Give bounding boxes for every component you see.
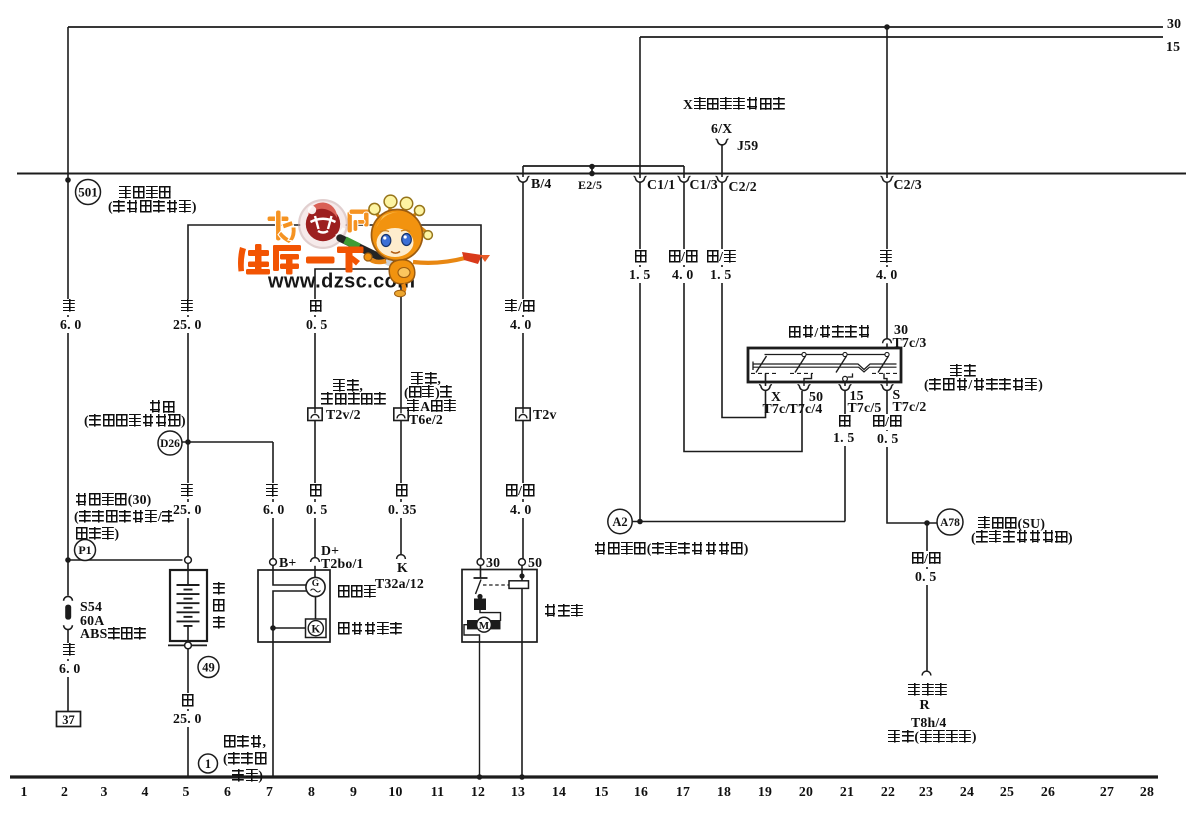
label red 6.0 generator [265,483,280,499]
label T2v [533,407,557,423]
watermark magnifier lens [298,199,348,249]
fuse S54 top holder arc [64,596,73,600]
wire blue 0.35 below plug T6e/2 [400,421,402,555]
label positive connection 30 line3 [75,526,119,542]
label radio plug [888,729,977,745]
label 0.5 swS [876,431,900,447]
label positive in generator harness line2 [84,413,186,429]
label positive connection 30 line1 [75,492,151,508]
connector circle P1 [75,540,96,561]
label 30 T7c3 b [893,335,927,351]
label plug near battery line2 [321,392,387,408]
connector cup X T7c/1 [759,385,772,391]
connector circle 501 (screw connection on relay plate) [76,180,101,205]
svg-text:G: G [312,579,320,589]
switch blade 15 [836,356,847,373]
wire black 1.5 from bus15 corner down through C1/1 [639,37,641,178]
label blue lower [308,483,323,499]
switch actuator bar upper [753,364,897,370]
label X T7c1 b [763,401,797,417]
label B+ [279,555,296,571]
label T6e/2 [409,412,443,428]
label S54 [80,599,102,615]
label E2/5 [578,178,602,193]
wire blue/black 0.5 from S down [887,391,937,524]
starter solenoid coil box [509,581,529,589]
label ABS fuse [80,626,147,642]
label 25.0 ground [172,711,203,727]
wire black/blue 4.0 down to starter 50 [522,421,524,559]
wire P1 to battery positive [68,559,183,561]
label black/red c22 [705,249,737,265]
wire bus 30 (terminal 30 supply) [68,26,1163,28]
svg-text:K: K [311,623,320,635]
label 1.5 sw15 [832,430,856,446]
svg-text:A78: A78 [940,517,960,529]
switch contact circle 15 lower [843,376,848,381]
label red 25.0 lower [180,483,195,499]
node junction dot A78 [924,520,930,526]
connector circle 1 (ground strap on battery) [199,754,218,773]
label black 25.0 [180,693,195,709]
wire red 4.0 C2/3 down to switch 30 [886,182,888,338]
switch actuator bar lower [753,367,897,372]
label 4.0 c23 [875,267,899,283]
svg-text:P1: P1 [78,543,91,557]
node junction dot starter solenoid contact [477,594,482,599]
starter contact bar [474,577,488,579]
switch contact circle t15 [843,352,847,356]
terminal circle battery negative [185,642,192,649]
label 50 T7c4 a [809,389,823,405]
label S T7c2 a [893,387,901,403]
wire solenoid to ground rail [521,588,523,777]
starter solenoid link dashed [483,584,509,586]
label X contact relay [683,97,785,113]
wire blue 0.5 D+ riser [315,269,401,408]
switch blade S [878,356,889,373]
wire battery positive loop top [188,225,481,559]
switch contact circle t50 [802,352,806,356]
wire A2 horizontal to ignition switch 15 [632,521,845,523]
terminal circle 30 on starter [477,559,484,566]
starter motor M circle [477,617,492,632]
label 4.0 bb [509,502,533,518]
watermark text zhao (find) [267,210,296,244]
wire D26 branch horizontal [182,441,273,443]
label B/4 [531,176,552,192]
connector C1/3 cup [678,177,691,183]
node dot E2/5 lower [589,171,595,177]
label black/blue c13 [667,249,699,265]
label red [62,299,77,315]
label ground strap line2 [223,751,267,767]
node E2/5 tie bar [591,166,593,174]
node junction dot A2 [637,519,643,525]
generator symbol G circle [306,577,325,596]
svg-text:M: M [479,620,490,632]
node dot E2/5 upper [589,164,595,170]
battery plates symbol [177,584,200,586]
watermark text wei [238,244,270,275]
switch contact circle tS [885,352,889,356]
label R radio [920,698,930,714]
label J59 [737,138,758,154]
battery G1 box [170,570,207,641]
label 15 bus [1166,39,1180,55]
connector plug radio R T8h/4 arc [922,671,931,675]
label blue/black radio [910,551,942,567]
wire segment B/4 to C1/3 above main line [523,165,684,167]
label radio name [908,683,948,699]
label A78 line1 [978,516,1045,532]
starter motor brush left [467,620,477,629]
node junction dot generator ground [270,625,276,631]
node junction dot P1 [65,557,71,563]
label D+ [321,543,339,559]
svg-text:1: 1 [205,757,211,771]
starter B box [462,570,537,643]
label C1/3 [690,177,718,193]
label 501 screw connection line2 [108,199,197,215]
label positive connection 30 line2 [74,509,175,525]
label plug brown line3 [407,399,457,415]
label A78 line2 [971,530,1073,546]
node junction dot on bus 30 [884,24,890,30]
wire starter 30 internal [480,566,482,579]
label 30 starter [486,555,500,571]
label blue/black swS [871,414,903,430]
label generator name [337,584,377,600]
connector C2/2 cup [716,177,729,183]
svg-text:A2: A2 [612,515,627,529]
inline plug T2v/2 [308,408,322,421]
label K terminal [397,560,408,576]
wire battery ground black 25.0 [187,649,189,777]
label ground strap line1 [223,734,266,750]
node junction dot starter 50 [519,573,524,578]
starter main contact block [474,599,486,611]
label C1/1 [647,177,675,193]
ground rail bottom [10,775,1158,778]
label voltage regulator name [337,621,403,637]
switch stub 50 [804,373,812,386]
wire black 1.5 riser to switch terminal 15 [844,391,846,522]
wire B/4 drop to connector [522,166,524,177]
label black/blue [504,483,536,499]
label 0.5 upper [305,317,329,333]
label T32a/12 [375,576,424,592]
connector cup 50 T7c/4 [798,385,811,391]
watermark mascot head [372,210,423,261]
connector circle 49 [198,657,219,678]
svg-text:37: 37 [62,713,75,727]
label 1.5 c11 [628,267,652,283]
node junction dot on main line at 501 [65,177,71,183]
watermark dzsc logo group [238,195,490,297]
label 0.5 lower [305,502,329,518]
wire contact block to motor brush [480,610,501,621]
switch stub 15 [844,381,846,386]
inline plug T2v [516,408,530,421]
watermark magnifier handle [340,238,406,270]
label 15 T7c5 a [850,388,864,404]
terminal circle 50 on starter [519,559,526,566]
connector B/4 cup [517,177,530,183]
wire black/red 1.5 C2/2 down to switch X [722,182,766,417]
label C2/2 [729,179,757,195]
label 25.0 upper [172,317,203,333]
label 4.0 c13 [671,267,695,283]
node junction dot solenoid ground at rail [519,774,525,780]
switch internal top rail [765,354,888,356]
generator C1 box [258,570,330,642]
connector C2/3 cup [881,177,894,183]
connector plug T2bo/1 (D+) arc [311,558,320,562]
label 6.0 [59,317,83,333]
label 4.0 rb [509,317,533,333]
wire black/blue 4.0 C1/3 down [684,182,802,451]
switch stub S [884,373,887,386]
terminal circle B+ on generator [270,559,277,566]
wire red 4.0 from bus30 down through C2/3 [886,27,888,178]
watermark mascot antennae [369,195,433,239]
wire bus 15 (terminal 15 supply) [640,36,1163,38]
label red 25.0 upper [180,299,195,315]
label plug brown line1 [411,371,441,387]
watermark text xia [337,247,364,273]
terminal box 37 [57,712,81,727]
connector plug K T32a/12 arc [397,555,406,559]
label T2v/2 [326,407,361,423]
wire red/black 4.0 B/4 down to plug T2v [522,182,524,408]
fuse S54 60A ABS fuse body [65,605,71,620]
label blue upper [308,299,323,315]
fuse S54 bottom holder arc [64,625,73,629]
connector plug 30 T7c/3 arc [883,339,892,343]
battery negative bar [168,644,207,646]
label plug on ignition line2 [924,377,1043,393]
voltage regulator K symbol [306,619,327,638]
switch blade X [756,356,767,373]
starter switch blade [476,580,482,595]
wire generator internal G to ground [273,591,307,777]
label 25.0 lower [172,502,203,518]
svg-text:49: 49 [202,660,215,674]
watermark text yi [306,257,335,264]
svg-text:501: 501 [78,184,98,199]
wire junction to voltage regulator K [273,627,305,629]
label S T7c2 b [893,399,927,415]
wire battery internal bottom [187,626,189,642]
label 6/X [711,121,732,137]
switch detent dashes [751,372,776,374]
node junction dot on battery wire at D26 branch [185,439,191,445]
wire blue/black 0.5 radio drop [926,523,928,671]
label 0.5 radio [914,569,938,585]
watermark mascot body [364,252,490,297]
wire track2 red 6.0 from bus30 down to fuse S54 [67,27,69,596]
wire battery internal top [187,564,189,586]
label ground strap line3 [232,768,263,784]
wire generator internal B+ to G [273,566,307,586]
wire D+ drop into generator [314,566,316,578]
label 50 T7c4 b [789,401,823,417]
connector circle A2 (positive connection in dash panel harness) [608,509,632,533]
watermark text pian [347,209,371,233]
label blue 0.35 [394,483,409,499]
connector cup S T7c/2 [881,385,894,391]
inline plug T6e/2 [394,408,408,421]
wire plug into switch box [886,343,888,348]
svg-text:D26: D26 [160,438,180,450]
label plug brown line2 [404,385,453,401]
switch hook 15 [848,373,853,377]
label 30 T7c3 a [894,322,908,338]
label positive in generator harness line1 [149,400,175,416]
label plug near battery line1 [333,378,363,394]
wire motor to ground [464,625,480,777]
label 0.35 [387,502,418,518]
wire red 6.0 down to generator B+ [272,442,274,559]
label battery vertical [213,580,226,631]
label 6.0 below fuse [58,661,82,677]
wire starter 50 internal [521,566,523,581]
label 60A [80,613,104,629]
wire blue 0.5 below plug T2v/2 [314,421,316,558]
label 1.5 c22 [709,267,733,283]
label plug on ignition line1 [950,364,976,380]
connector plug 6/X J59 cup (X contact relief relay) [716,139,729,145]
wire black 1.5 C1/1 down to junction A2 [639,182,641,522]
track number row 1-28 [0,784,1200,800]
ignition switch D box [748,348,901,382]
label starter name [544,604,584,620]
wire from relay J59 down to main line [721,145,723,177]
label 30 bus [1167,16,1181,32]
label 6.0 generator [262,502,286,518]
wire main interior bus line [17,173,1186,175]
label 50 starter [528,555,542,571]
label red below fuse [62,643,77,659]
wire G to regulator K [315,597,317,619]
connector circle A78 (connection SU in dash harness) [937,509,963,535]
wire C1/3 drop from segment [683,166,685,178]
label 501 screw connection line1 [119,185,172,201]
label red/black [504,299,536,315]
label black sw15 [837,414,852,430]
label T8h/4 [911,715,947,731]
label X T7c1 a [771,389,781,405]
label C2/3 [894,177,922,193]
label black 1.5 c11 [633,249,648,265]
connector circle D26 (positive connection in generator harness) [158,431,182,455]
label red c23 [879,249,894,265]
label T2bo/1 [321,556,364,572]
terminal circle battery positive [185,557,192,564]
node junction dot starter ground at rail [477,774,483,780]
label A2 positive connection [594,541,748,557]
switch actuator bar left cap [752,362,754,371]
wire red 6.0 fuse to terminal box 37 [67,630,69,712]
switch blade 50 [795,356,806,373]
connector cup 15 T7c/5 [839,385,852,391]
label ignition switch name [788,325,871,341]
watermark text ku [273,245,301,275]
switch stub X [765,373,767,386]
connector C1/1 cup [634,177,647,183]
label 15 T7c5 b [848,400,882,416]
starter motor brush right [491,620,501,629]
